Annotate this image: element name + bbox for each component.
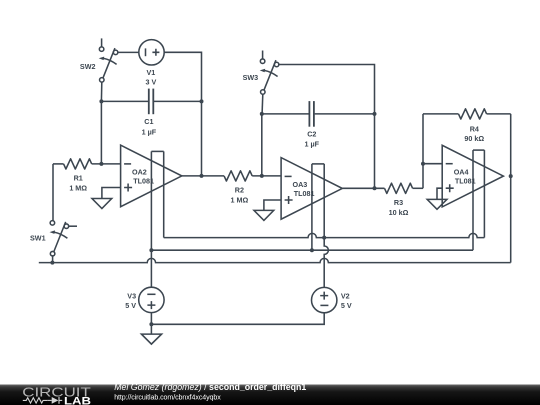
svg-text:V1: V1	[147, 68, 156, 77]
positive supply rail1 with hops	[164, 233, 485, 237]
wire SW2 lever to V1	[118, 51, 139, 53]
switch SW3	[260, 51, 279, 114]
resistor R3	[385, 183, 424, 193]
wire C1 right node down to OA2 output	[201, 101, 203, 175]
negative supply rail2	[151, 249, 473, 251]
wire SW2 bottom to C1 left node	[100, 82, 102, 101]
wire R1 left down to SW1	[52, 164, 54, 221]
svg-text:1 MΩ: 1 MΩ	[69, 183, 87, 192]
footer bar	[0, 385, 540, 405]
voltage source V1	[139, 40, 164, 65]
svg-text:90 kΩ: 90 kΩ	[464, 134, 484, 143]
svg-text:1 MΩ: 1 MΩ	[231, 196, 249, 205]
junction OA4 minus node	[421, 162, 425, 166]
svg-text:LAB: LAB	[64, 395, 91, 405]
svg-text:SW2: SW2	[80, 62, 96, 71]
svg-text:C2: C2	[307, 129, 316, 138]
op-amp OA4	[442, 145, 503, 207]
switch SW2	[99, 38, 118, 82]
wire V1 right to C1 right node	[164, 52, 201, 101]
ground below OA3 plus input	[254, 200, 281, 220]
junction rail2 OA3 branch	[310, 248, 314, 252]
resistor R1	[53, 159, 121, 169]
svg-text:Mel Gomez (rdgomez) / second_o: Mel Gomez (rdgomez) / second_order_diffe…	[114, 382, 306, 392]
svg-text:V2: V2	[341, 291, 350, 300]
svg-text:C1: C1	[144, 117, 153, 126]
svg-text:5 V: 5 V	[341, 301, 352, 310]
ground below V3	[141, 324, 161, 344]
svg-text:OA4: OA4	[454, 168, 469, 177]
wire OA2 output line	[182, 175, 224, 177]
svg-text:R1: R1	[74, 174, 83, 183]
svg-text:R2: R2	[235, 186, 244, 195]
OA3 V+ pin wire down to positive rail then V2 (hop over rail2)	[324, 164, 328, 288]
svg-text:http://circuitlab.com/cbnxf4xc: http://circuitlab.com/cbnxf4xc4yqbx	[114, 394, 221, 402]
junction C1 left	[99, 99, 103, 103]
svg-text:R4: R4	[470, 124, 479, 133]
junction OA3 output	[373, 186, 377, 190]
OA2 V- pin wire down to negative rail and V3	[150, 151, 152, 287]
capacitor C1	[101, 89, 201, 115]
junction R2 right / C2 left branch	[260, 174, 264, 178]
svg-text:10 kΩ: 10 kΩ	[389, 208, 409, 217]
junction rail2 OA2 branch	[149, 248, 153, 252]
junction V3 ground	[149, 322, 153, 326]
resistor R2	[224, 171, 281, 181]
svg-text:3 V: 3 V	[146, 78, 157, 87]
wire C1 left node down to R1 output node	[100, 101, 102, 163]
capacitor C2	[262, 101, 375, 127]
wire C2 left node down to OA3 minus input	[261, 114, 263, 176]
junction C2 right	[373, 112, 377, 116]
wire C2 right node down to OA3 output	[374, 114, 376, 188]
junction C1 right	[200, 99, 204, 103]
CircuitLab logo	[22, 384, 91, 405]
svg-text:1 µF: 1 µF	[142, 128, 157, 137]
svg-text:5 V: 5 V	[125, 301, 136, 310]
voltage source V3	[139, 287, 164, 312]
junction at OA2 output	[200, 174, 204, 178]
ground below OA4 plus input	[427, 188, 447, 209]
OA4 V- pin wire down joins rail2 right end	[472, 150, 474, 250]
wire OA4 output down to feedback rail3	[510, 176, 512, 263]
wire OA3 output line	[342, 187, 384, 189]
svg-text:V3: V3	[127, 291, 136, 300]
OA4 V+ pin wire down joins rail1 right end	[483, 150, 485, 238]
svg-text:OA3: OA3	[293, 180, 308, 189]
resistor R4	[423, 109, 511, 119]
wire R3 right up to OA4 minus node and R4	[422, 114, 424, 188]
junction C2 left	[260, 112, 264, 116]
switch SW1	[50, 221, 78, 263]
svg-text:SW3: SW3	[243, 73, 259, 82]
feedback rail3 with hops	[39, 258, 511, 262]
wire V3 bottom to V2 bottom	[151, 313, 324, 325]
wire SW3 lever right and down to C2 right node	[279, 65, 375, 114]
OA2 V+ pin wire down to positive rail corner	[163, 151, 165, 237]
op-amp OA3	[281, 158, 342, 220]
junction at OA2 minus input	[99, 162, 103, 166]
voltage source V2	[312, 287, 337, 312]
wire to OA4 minus input	[423, 163, 442, 165]
ground below OA2 plus input	[92, 188, 121, 209]
svg-text:1 µF: 1 µF	[305, 140, 320, 149]
svg-text:OA2: OA2	[132, 167, 147, 176]
svg-text:SW1: SW1	[30, 233, 46, 242]
op-amp OA2	[121, 145, 182, 207]
OA3 V- pin wire down to negative rail	[311, 164, 313, 250]
junction SW1 on ground rail	[50, 261, 54, 265]
junction rail1 V2 branch	[322, 236, 326, 240]
svg-text:R3: R3	[394, 198, 403, 207]
junction OA4 output	[509, 174, 513, 178]
wire R4 right down to OA4 output	[510, 114, 512, 176]
